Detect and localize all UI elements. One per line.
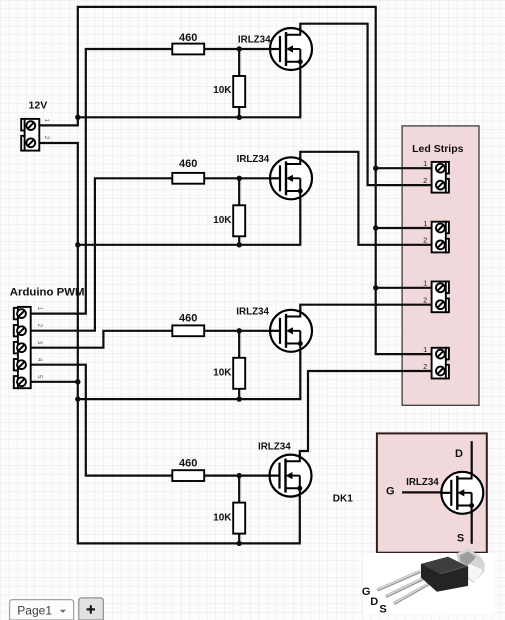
junction Q3 gate node	[237, 328, 242, 333]
resistor R1 460 row1	[172, 44, 204, 55]
photo TO-220 lead S	[394, 584, 429, 604]
svg-text:460: 460	[179, 158, 197, 170]
group DK1 frame	[377, 433, 487, 552]
junction ground rail row2	[75, 242, 80, 247]
wire R8 10K row4 leads	[238, 476, 240, 544]
svg-text:10K: 10K	[213, 368, 232, 379]
wire R7 to Q4 gate	[204, 475, 281, 477]
resistor R3 460 row2	[172, 173, 204, 184]
wire R3 to Q2 gate	[204, 177, 281, 179]
connector J1 12V screw terminal	[21, 119, 39, 151]
wire rail tap to LED3 pin1	[376, 287, 433, 289]
wire rail tap to LED1 pin1	[376, 167, 433, 169]
svg-text:2: 2	[423, 176, 427, 185]
wire Arduino pin2 to R3	[30, 178, 173, 330]
junction node A 12V pin1	[75, 115, 80, 120]
svg-text:2: 2	[423, 296, 427, 305]
svg-text:1: 1	[423, 219, 427, 228]
wire R2 10K row1 leads	[238, 49, 240, 117]
pin J2-3 screw	[17, 343, 26, 352]
transistor Q2 IRLZ34 row2	[270, 157, 313, 200]
pin LED3-1 screw	[436, 283, 445, 292]
pin J2-2 screw	[17, 326, 26, 335]
transistor Q3 IRLZ34 row3	[270, 309, 313, 352]
junction ground rail pin5	[75, 379, 80, 384]
wire DK1 drain lead D	[471, 441, 473, 480]
wire R4 10K row2 leads	[238, 178, 240, 245]
resistor R4 10K row2	[233, 205, 245, 236]
wire Arduino pin4 to R7	[30, 365, 173, 476]
junction rail LED1 pin1	[373, 166, 378, 171]
junction Q4 gate node	[237, 473, 242, 478]
junction rail LED3 pin1	[373, 285, 378, 290]
wire Q1 drain to LED1 pin2	[300, 24, 433, 185]
connector J2 Arduino PWM screw terminal	[14, 307, 31, 388]
resistor R7 460 row4	[172, 470, 204, 481]
wire DK1 source lead S	[471, 506, 473, 544]
resistor R6 10K row3	[233, 358, 245, 389]
wire row2 source rail	[78, 199, 300, 245]
pin LED2-2 screw	[436, 241, 445, 250]
pin LED1-1 screw	[436, 164, 445, 173]
photo TO-220 package background	[363, 553, 494, 614]
svg-text:G: G	[386, 486, 395, 498]
wire rail tap to LED2 pin1	[376, 227, 433, 229]
wire Q2 drain to LED2 pin2	[300, 152, 433, 245]
svg-text:10K: 10K	[213, 85, 232, 96]
svg-text:S: S	[379, 603, 386, 615]
svg-text:2: 2	[423, 362, 427, 371]
wire R1 to Q1 gate	[204, 48, 281, 50]
svg-text:Arduino PWM: Arduino PWM	[10, 286, 85, 298]
photo TO-220 lead D	[386, 578, 425, 597]
pin J2-5 screw	[17, 377, 26, 386]
svg-text:DK1: DK1	[333, 494, 353, 505]
photo TO-220 lead G	[378, 571, 421, 590]
connector LED3 screw terminal	[432, 282, 449, 313]
svg-text:G: G	[362, 586, 371, 598]
transistor Q4 IRLZ34 row4	[269, 454, 312, 497]
junction R2 bottom row1	[237, 115, 242, 120]
pin LED4-1 screw	[436, 350, 445, 359]
wire Arduino pin3 to R5	[30, 331, 173, 348]
svg-text:1: 1	[423, 345, 427, 354]
junction R6 bottom row3	[237, 396, 242, 401]
pin J2-4 screw	[17, 360, 26, 369]
ui tab Page1	[10, 600, 74, 620]
resistor R2 10K row1	[233, 76, 245, 107]
junction Q1 gate node	[237, 46, 242, 51]
svg-text:460: 460	[179, 313, 197, 325]
svg-text:IRLZ34: IRLZ34	[236, 306, 269, 317]
svg-text:D: D	[370, 596, 378, 608]
wire Arduino pin1 to R1	[30, 49, 173, 314]
wire R6 10K row3 leads	[238, 331, 240, 399]
wire DK1 gate lead G	[402, 491, 451, 493]
svg-text:IRLZ34: IRLZ34	[238, 35, 271, 46]
pin LED3-2 screw	[436, 300, 445, 309]
wire 12V pin1 to node A	[38, 117, 78, 125]
wire Q3 drain to LED3 pin2	[300, 305, 433, 311]
pin LED1-2 screw	[436, 181, 445, 190]
wire 12V pin2 left ground rail bottom loop to Q4 source	[38, 143, 300, 543]
svg-text:10K: 10K	[213, 215, 232, 226]
junction Q2 gate node	[237, 176, 242, 181]
photo TO-220 body	[421, 557, 468, 592]
svg-text:460: 460	[179, 32, 197, 44]
wire row1 source rail	[78, 70, 300, 117]
wire R5 to Q3 gate	[204, 330, 281, 332]
connector LED4 screw terminal	[432, 348, 449, 379]
wire row3 source rail	[78, 352, 300, 399]
svg-text:10K: 10K	[213, 512, 232, 523]
wire Q4 drain to LED4 pin2	[300, 371, 433, 456]
svg-text:IRLZ34: IRLZ34	[237, 154, 270, 165]
transistor DK1 IRLZ34 symbol	[441, 471, 484, 514]
resistor R8 10K row4	[233, 503, 245, 534]
pin J2-1 screw	[17, 309, 26, 318]
junction R4 bottom row2	[237, 242, 242, 247]
svg-text:460: 460	[179, 457, 197, 469]
svg-text:1: 1	[423, 159, 427, 168]
group Led Strips frame	[402, 126, 479, 405]
junction R8 bottom row4	[237, 541, 242, 546]
svg-text:1: 1	[423, 279, 427, 288]
svg-text:S: S	[457, 533, 464, 545]
ui button add page	[79, 598, 104, 620]
junction ground rail row3	[75, 396, 80, 401]
pin J1-1 screw	[26, 121, 35, 130]
transistor Q1 IRLZ34 row1	[270, 27, 313, 70]
svg-text:Led Strips: Led Strips	[412, 143, 464, 155]
pin LED2-1 screw	[436, 224, 445, 233]
resistor R5 460 row3	[172, 325, 204, 336]
wire Arduino pin5 to ground rail	[30, 381, 78, 383]
svg-text:12V: 12V	[29, 99, 48, 111]
svg-text:2: 2	[423, 236, 427, 245]
svg-text:Page1: Page1	[17, 604, 52, 618]
pin LED4-2 screw	[436, 367, 445, 376]
svg-text:D: D	[455, 448, 463, 460]
connector LED1 screw terminal	[432, 162, 449, 193]
connector LED2 screw terminal	[432, 222, 449, 253]
pin J1-2 screw	[26, 138, 35, 147]
svg-text:IRLZ34: IRLZ34	[406, 477, 439, 488]
photo TO-220 metal tab	[456, 549, 485, 584]
svg-text:IRLZ34: IRLZ34	[258, 441, 291, 452]
wire net12V top loop to Led Strips pin1 rail	[78, 7, 433, 354]
junction rail LED2 pin1	[373, 225, 378, 230]
